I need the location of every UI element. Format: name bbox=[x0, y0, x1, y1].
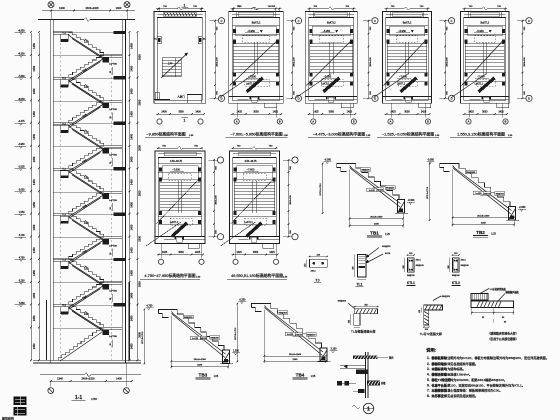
left dimension of TB3 bbox=[142, 309, 145, 365]
vertical dimension column 5 row1 bbox=[522, 20, 526, 99]
svg-text:Φ8@100: Φ8@100 bbox=[452, 274, 460, 277]
svg-text:1450: 1450 bbox=[130, 201, 134, 207]
svg-text:3350: 3350 bbox=[178, 111, 184, 114]
svg-text:Φ8@200: Φ8@200 bbox=[495, 193, 504, 196]
svg-text:1450: 1450 bbox=[32, 315, 36, 321]
svg-text:0.050: 0.050 bbox=[19, 190, 25, 192]
svg-text:1450: 1450 bbox=[32, 270, 36, 276]
svg-text:-2.950: -2.950 bbox=[18, 144, 25, 146]
svg-text:外均为200x300，配筋4Φ14籛筋Φ8@100。: 外均为200x300，配筋4Φ14籛筋Φ8@100。 bbox=[447, 377, 507, 382]
svg-text:-0.050: -0.050 bbox=[427, 159, 434, 162]
half landing level 3 bbox=[53, 146, 122, 166]
svg-text:B: B bbox=[427, 120, 429, 124]
svg-text:（楼梯踏步防滑条大样）: （楼梯踏步防滑条大样） bbox=[488, 332, 519, 336]
svg-text:C: C bbox=[528, 19, 530, 23]
stair flight down-left from half landing 4 bbox=[69, 191, 104, 218]
stair flight detail TB4: top landing bbox=[251, 304, 264, 312]
svg-text:2900: 2900 bbox=[137, 235, 141, 241]
svg-text:B≤KTL2: B≤KTL2 bbox=[480, 22, 489, 25]
svg-text:1450: 1450 bbox=[32, 292, 36, 298]
svg-text:L≤PTB6: L≤PTB6 bbox=[109, 154, 117, 157]
stair flight down-left from half landing 1 bbox=[69, 55, 104, 82]
svg-text:建筑结构: 建筑结构 bbox=[2, 416, 14, 420]
svg-text:261x9=2349: 261x9=2349 bbox=[289, 354, 302, 356]
svg-text:TB4: TB4 bbox=[296, 373, 305, 378]
detail callout bubble 1 bbox=[352, 403, 374, 413]
stair flight down-right from floor 5 bbox=[69, 214, 104, 241]
svg-text:1450: 1450 bbox=[32, 247, 36, 253]
svg-text:1425: 1425 bbox=[498, 111, 504, 114]
svg-text:1: 1 bbox=[184, 3, 186, 7]
svg-text:B≤KTL2: B≤KTL2 bbox=[403, 22, 412, 25]
svg-text:1450: 1450 bbox=[130, 43, 134, 49]
svg-text:D: D bbox=[528, 97, 530, 101]
top dimension of plan 3 bbox=[307, 6, 355, 11]
svg-text:1425: 1425 bbox=[162, 251, 168, 254]
svg-text:2900: 2900 bbox=[137, 331, 141, 337]
svg-text:1450: 1450 bbox=[130, 111, 134, 117]
svg-text:Φ8@100: Φ8@100 bbox=[416, 264, 425, 267]
svg-text:1425: 1425 bbox=[236, 251, 242, 254]
svg-text:1573.5+173.5: 1573.5+173.5 bbox=[320, 182, 322, 195]
svg-text:-2.950: -2.950 bbox=[519, 206, 526, 209]
svg-text:1450: 1450 bbox=[32, 65, 36, 71]
half landing level 6 bbox=[53, 282, 122, 302]
svg-text:1340: 1340 bbox=[59, 6, 65, 10]
svg-text:1573.5+173.5: 1573.5+173.5 bbox=[235, 327, 237, 340]
svg-text:TB3: TB3 bbox=[199, 373, 208, 378]
svg-text:1400: 1400 bbox=[161, 111, 167, 114]
svg-text:Φ8@200: Φ8@200 bbox=[210, 336, 219, 339]
stair flight down-left from half landing 2 bbox=[69, 100, 104, 127]
level marks of TB2 bbox=[427, 159, 526, 212]
top dimension of plan 7 bbox=[232, 146, 278, 150]
svg-text:1425: 1425 bbox=[195, 251, 201, 254]
svg-text:Φ8@200: Φ8@200 bbox=[338, 300, 347, 303]
svg-text:3050: 3050 bbox=[178, 251, 184, 254]
stair flight detail TB2: stepped flight bbox=[453, 164, 512, 215]
svg-text:-6.050: -6.050 bbox=[18, 99, 25, 101]
stair plan 1: -9.850 level bbox=[154, 12, 206, 104]
bottom dimension of plan 4 bbox=[385, 103, 431, 117]
svg-text:1:25: 1:25 bbox=[491, 233, 496, 236]
svg-text:1400: 1400 bbox=[116, 6, 122, 10]
axis bubble column 3 row1 bbox=[363, 18, 378, 102]
svg-text:-1.525: -1.525 bbox=[18, 167, 25, 169]
svg-text:1573.5+173.5: 1573.5+173.5 bbox=[427, 186, 429, 199]
caption of plan 2 bbox=[226, 132, 289, 138]
svg-text:L≤KTL1: L≤KTL1 bbox=[397, 83, 406, 86]
svg-text:Φ8@200: Φ8@200 bbox=[307, 334, 316, 337]
floor landing level 4 bbox=[53, 167, 125, 178]
svg-text:D: D bbox=[374, 97, 376, 101]
svg-text:凝土强度等级：梯板梯梁梯柱均为C30。: 凝土强度等级：梯板梯梁梯柱均为C30。 bbox=[447, 388, 502, 393]
svg-text:1:25: 1:25 bbox=[311, 375, 316, 378]
rebar annotations of TB3 bbox=[183, 315, 219, 340]
svg-text:−5.950: −5.950 bbox=[322, 30, 330, 33]
floor landing level 2 bbox=[53, 76, 125, 87]
svg-text:261x9=2349: 261x9=2349 bbox=[194, 359, 207, 361]
svg-text:2804+200: 2804+200 bbox=[370, 57, 372, 67]
stair flight down-left from half landing 5 bbox=[69, 237, 104, 264]
stair plan 3: &#8722;4.475,&#8722;3.000&#26631;&#39640;&#32467;&#26500;&#24179;&#38754;&#22270; bbox=[296, 12, 357, 108]
bottom axis bubbles of plan 3 bbox=[311, 119, 357, 124]
svg-text:TL与梯板连接大样: TL与梯板连接大样 bbox=[351, 328, 376, 333]
bottom axis bubbles of plan 4 bbox=[388, 119, 431, 124]
svg-text:1400: 1400 bbox=[195, 111, 201, 114]
svg-text:2804+200: 2804+200 bbox=[290, 195, 292, 205]
svg-text:Φ8@200: Φ8@200 bbox=[361, 169, 370, 172]
vertical dimension column 3 row1 bbox=[368, 20, 372, 99]
svg-text:-6.050: -6.050 bbox=[324, 159, 331, 162]
svg-text:2900: 2900 bbox=[137, 54, 141, 60]
caption of plan 5 bbox=[450, 132, 513, 138]
detail TL-stair connection bbox=[338, 300, 379, 334]
svg-text:1450: 1450 bbox=[32, 43, 36, 49]
svg-text:1450: 1450 bbox=[32, 133, 36, 139]
svg-text:300: 300 bbox=[403, 265, 405, 268]
svg-text:1450: 1450 bbox=[32, 179, 36, 185]
svg-text:1425: 1425 bbox=[237, 111, 243, 114]
svg-text:261x9=2349: 261x9=2349 bbox=[477, 215, 490, 217]
svg-text:5.: 5. bbox=[427, 378, 430, 382]
svg-text:300: 300 bbox=[448, 265, 450, 268]
svg-text:h=120: h=120 bbox=[369, 190, 376, 192]
label TB4 bbox=[293, 373, 316, 380]
svg-text:Φ8@200: Φ8@200 bbox=[184, 316, 193, 319]
svg-text:6.: 6. bbox=[427, 383, 430, 387]
svg-text:C: C bbox=[221, 19, 223, 23]
detail KTL1 bbox=[403, 253, 425, 286]
floor landing level 7 bbox=[53, 303, 125, 314]
svg-text:1425: 1425 bbox=[347, 111, 353, 114]
svg-text:1425: 1425 bbox=[390, 111, 396, 114]
svg-text:1.550: 1.550 bbox=[19, 212, 25, 214]
svg-text:Φ8@100: Φ8@100 bbox=[407, 274, 415, 277]
svg-text:1340: 1340 bbox=[57, 377, 63, 381]
svg-text:说明:: 说明: bbox=[426, 347, 436, 354]
top dimension of plan 5 bbox=[463, 6, 508, 11]
svg-text:200: 200 bbox=[425, 329, 428, 331]
svg-text:49.550,51.150标高结构平面图: 49.550,51.150标高结构平面图 bbox=[231, 273, 283, 278]
section cut mark 1 below plan 1 bbox=[182, 117, 189, 122]
svg-text:为结构标高。: 为结构标高。 bbox=[447, 366, 466, 371]
svg-text:标准值3.5kN/m²。: 标准值3.5kN/m²。 bbox=[447, 372, 472, 377]
svg-text:8.: 8. bbox=[427, 394, 430, 398]
stair plan 7: 49.550,51.150&#26631;&#39640;&#32467;&#26500;&#24179;&#38754;&#22270; bbox=[221, 151, 280, 248]
bottom dimensions of TB4 bbox=[264, 310, 327, 364]
svg-text:1-1: 1-1 bbox=[75, 395, 82, 401]
svg-text:本图楼梯混: 本图楼梯混 bbox=[432, 388, 448, 393]
svg-text:1.550: 1.550 bbox=[233, 350, 240, 353]
bottom axis bubbles of plan 1 bbox=[157, 119, 203, 124]
svg-text:1573.5+173.5: 1573.5+173.5 bbox=[142, 331, 144, 344]
half landing level 5 bbox=[53, 237, 122, 257]
stair flight down-right from floor 7 bbox=[69, 304, 104, 331]
svg-text:1: 1 bbox=[367, 407, 370, 413]
svg-text:200: 200 bbox=[409, 253, 412, 255]
svg-text:D: D bbox=[298, 97, 300, 101]
stair flight detail TB3: top landing bbox=[158, 310, 171, 318]
svg-text:2900: 2900 bbox=[137, 281, 141, 287]
svg-text:1425: 1425 bbox=[468, 111, 474, 114]
svg-text:1450: 1450 bbox=[32, 111, 36, 117]
bottom dimension of plan 3 bbox=[307, 103, 356, 117]
detail TJ bbox=[305, 254, 328, 282]
svg-text:B≤KTL2: B≤KTL2 bbox=[252, 22, 261, 25]
svg-text:120: 120 bbox=[419, 310, 421, 313]
detail anti-slip strip bbox=[471, 287, 519, 341]
half landing level 1 bbox=[53, 55, 122, 75]
rebar annotations of TB2 bbox=[466, 170, 505, 195]
svg-text:2349: 2349 bbox=[374, 223, 380, 225]
svg-text:1400: 1400 bbox=[116, 377, 122, 381]
svg-text:1425: 1425 bbox=[313, 111, 319, 114]
svg-text:h=120: h=120 bbox=[475, 193, 482, 195]
svg-text:L≤PTB6: L≤PTB6 bbox=[109, 244, 117, 247]
svg-text:1425: 1425 bbox=[273, 111, 279, 114]
axis bubbles right of plan 6 bbox=[209, 157, 224, 240]
svg-text:2349: 2349 bbox=[481, 222, 487, 224]
floor landing level 3 bbox=[53, 122, 125, 133]
svg-text:h=120: h=120 bbox=[287, 334, 294, 336]
stair flight detail TB3: stepped flight bbox=[171, 310, 225, 358]
svg-text:Φ8@200: Φ8@200 bbox=[386, 187, 395, 190]
left dimension of TB4 bbox=[235, 303, 238, 363]
svg-text:2.: 2. bbox=[427, 362, 430, 366]
bottom dimensions of TB1 bbox=[349, 170, 404, 228]
bottom axis bubbles of plan 6 bbox=[158, 259, 204, 264]
stair plan 4: &#8722;1.525,&#8722;0.050&#26631;&#39640;&#32467;&#26500;&#24179;&#38754;&#22270; bbox=[374, 12, 432, 108]
bottom dimension of plan 7 bbox=[232, 244, 279, 259]
detail TL1 bbox=[353, 245, 392, 287]
svg-text:2349: 2349 bbox=[292, 359, 298, 361]
bottom dimension of plan 5 bbox=[463, 103, 508, 117]
svg-text:3050: 3050 bbox=[329, 111, 335, 114]
left dimension of TB1 bbox=[320, 163, 323, 214]
svg-text:2804+200: 2804+200 bbox=[215, 195, 217, 205]
svg-text:D: D bbox=[221, 97, 223, 101]
svg-text:Φ8@200: Φ8@200 bbox=[467, 171, 476, 174]
top dimension of plan 1 bbox=[156, 8, 204, 10]
svg-text:1450: 1450 bbox=[32, 88, 36, 94]
notes block bbox=[426, 347, 549, 398]
svg-text:1.: 1. bbox=[427, 356, 430, 360]
axis bubbles right of plan 7 bbox=[283, 157, 298, 240]
wall section detail 1 bbox=[337, 352, 393, 398]
top dimension of plan 6 bbox=[157, 6, 203, 11]
top dimension of plan 6 bbox=[157, 146, 203, 150]
svg-text:B: B bbox=[505, 120, 507, 124]
stair flight down-left from half landing 6 bbox=[69, 282, 104, 309]
vertical dimension column 1 row1 bbox=[214, 20, 218, 99]
section 1-1 stair elevation bbox=[38, 18, 135, 363]
top dimension of plan 2 bbox=[231, 6, 282, 11]
svg-text:1450: 1450 bbox=[130, 292, 134, 298]
bottom dimension of plan 1 bbox=[156, 111, 205, 115]
vertical dimension right of plan 6 bbox=[213, 159, 217, 237]
level marks of TB4 bbox=[238, 299, 337, 353]
svg-text:1450: 1450 bbox=[32, 201, 36, 207]
svg-text:2804+200: 2804+200 bbox=[293, 57, 295, 67]
axis bubble column 4 row1 bbox=[440, 18, 455, 102]
svg-text:C: C bbox=[374, 19, 376, 23]
stair plan 5: 1.550,3.150&#26631;&#39640;&#32467;&#26500;&#24179;&#38754;&#22270; bbox=[452, 12, 510, 108]
label TB1 bbox=[367, 231, 390, 238]
level marks of TB3 bbox=[145, 305, 240, 355]
svg-text:楼梯间墙体: 楼梯间墙体 bbox=[432, 361, 448, 366]
axis bubble top-left bbox=[48, 2, 54, 8]
detail TL-TZ connection bbox=[419, 295, 451, 336]
svg-text:-8.300: -8.300 bbox=[408, 199, 415, 202]
svg-text:2900: 2900 bbox=[137, 99, 141, 105]
stair flight down-right from floor 1 bbox=[69, 32, 104, 59]
top dimension line of section bbox=[42, 6, 135, 19]
corner annotation bottom-left bbox=[2, 397, 27, 420]
vertical dimension column 2 row1 bbox=[291, 20, 295, 99]
svg-text:L≤KTL1: L≤KTL1 bbox=[475, 83, 484, 86]
svg-text:−1.525,−0.050标高结构平面图: −1.525,−0.050标高结构平面图 bbox=[382, 132, 434, 137]
svg-text:-4.475: -4.475 bbox=[18, 121, 25, 123]
stair flight detail TB2: bottom beam bbox=[506, 207, 519, 221]
stair flight down-left from half landing 3 bbox=[69, 146, 104, 173]
left dimension chain of section bbox=[30, 31, 40, 361]
svg-text:KTL1: KTL1 bbox=[407, 281, 415, 285]
svg-text:1:25: 1:25 bbox=[385, 233, 390, 236]
svg-text:7.: 7. bbox=[427, 389, 430, 393]
svg-text:L≤PTB6: L≤PTB6 bbox=[109, 63, 117, 66]
bottom stair flight to base slab bbox=[58, 327, 104, 361]
level marks of TB1 bbox=[324, 159, 415, 205]
bottom dimension of plan 6 bbox=[157, 244, 204, 259]
half landing level 2 bbox=[53, 100, 122, 120]
svg-text:3.100: 3.100 bbox=[19, 235, 25, 237]
svg-text:TJ: TJ bbox=[316, 279, 320, 283]
svg-text:楼梯活荷载: 楼梯活荷载 bbox=[432, 372, 448, 377]
caption of plan 6 bbox=[140, 273, 201, 279]
svg-text:6.250: 6.250 bbox=[239, 299, 246, 302]
bottom axis bubbles of plan 2 bbox=[234, 119, 282, 124]
svg-text:−5.950: −5.950 bbox=[398, 30, 406, 33]
svg-text:详见各层结构平面图。: 详见各层结构平面图。 bbox=[447, 361, 478, 366]
svg-text:1425: 1425 bbox=[421, 111, 427, 114]
axis bubble column 1 row1 bbox=[210, 18, 225, 102]
label TB3 bbox=[195, 373, 218, 380]
svg-text:1450: 1450 bbox=[130, 133, 134, 139]
svg-text:人防门: 人防门 bbox=[177, 95, 185, 99]
svg-text:B: B bbox=[279, 120, 281, 124]
svg-text:Φ8@200: Φ8@200 bbox=[442, 295, 451, 298]
svg-text:本图标高均: 本图标高均 bbox=[432, 366, 447, 371]
svg-text:未尽事宜详: 未尽事宜详 bbox=[431, 393, 448, 398]
bottom dimension of plan 2 bbox=[231, 103, 283, 117]
svg-text:4.750: 4.750 bbox=[146, 305, 153, 308]
svg-text:2900: 2900 bbox=[137, 190, 141, 196]
svg-text:L≤PTB6: L≤PTB6 bbox=[109, 290, 117, 293]
bottom dimensions of TB3 bbox=[171, 316, 229, 369]
bottom dimension line of section bbox=[50, 363, 133, 387]
svg-text:1450: 1450 bbox=[130, 224, 134, 230]
stair flight down-right from floor 2 bbox=[69, 77, 104, 104]
level marks of section bbox=[15, 30, 27, 307]
svg-text:注明外均为h=120，梯板分布筋除注明外均为Φ8@200，定: 注明外均为h=120，梯板分布筋除注明外均为Φ8@200，定位详见建筑图。 bbox=[447, 355, 549, 360]
svg-text:A: A bbox=[390, 120, 392, 124]
stair flight detail TB4: stepped flight bbox=[264, 304, 323, 356]
svg-text:2804+200: 2804+200 bbox=[447, 57, 449, 67]
svg-text:L≤PTB6: L≤PTB6 bbox=[109, 199, 117, 202]
axis bubble column 5 row1 bbox=[517, 18, 532, 102]
svg-text:h=120: h=120 bbox=[192, 338, 199, 340]
svg-text:3050: 3050 bbox=[482, 111, 488, 114]
section cut mark 1 above plan 1 bbox=[182, 3, 189, 7]
stair plan 6: 4.750~47.950&#26631;&#39640;&#32467;&#26500;&#24179;&#38754;&#22270; bbox=[146, 151, 205, 248]
svg-text:1450: 1450 bbox=[32, 156, 36, 162]
vertical dimension column 4 row1 bbox=[444, 20, 448, 99]
svg-text:C: C bbox=[298, 19, 300, 23]
stair flight detail TB3: bottom beam bbox=[220, 350, 233, 364]
svg-text:休息平台板: 休息平台板 bbox=[431, 382, 448, 387]
svg-text:−7.600,−5.950标高结构平面图: −7.600,−5.950标高结构平面图 bbox=[230, 132, 282, 137]
svg-text:3.150: 3.150 bbox=[331, 348, 338, 351]
svg-text:3050: 3050 bbox=[253, 111, 259, 114]
floor landing level 5 bbox=[53, 212, 125, 223]
vertical dimension right of plan 7 bbox=[288, 159, 292, 237]
top dimension of plan 7 bbox=[232, 6, 278, 11]
svg-text:1.550,3.150标高结构平面图: 1.550,3.150标高结构平面图 bbox=[457, 132, 505, 137]
svg-text:A: A bbox=[312, 120, 314, 124]
svg-text:−5.950: −5.950 bbox=[247, 30, 255, 33]
base slab bbox=[33, 360, 141, 377]
svg-text:6.250: 6.250 bbox=[19, 280, 25, 282]
half landing level 7 bbox=[53, 327, 122, 347]
svg-text:-7.600: -7.600 bbox=[18, 76, 25, 78]
svg-text:楼梯板厚除: 楼梯板厚除 bbox=[432, 355, 448, 360]
svg-text:1425: 1425 bbox=[269, 251, 275, 254]
svg-text:L≤PTB6: L≤PTB6 bbox=[109, 335, 117, 338]
stair flight down-right from floor 3 bbox=[69, 123, 104, 150]
svg-text:1:25: 1:25 bbox=[214, 375, 219, 378]
caption of plan 3 bbox=[308, 132, 371, 138]
svg-text:A: A bbox=[468, 120, 470, 124]
caption of plan 7 bbox=[227, 273, 288, 279]
svg-text:B: B bbox=[353, 120, 355, 124]
stair flight down-right from floor 6 bbox=[69, 259, 104, 286]
svg-text:TB2: TB2 bbox=[476, 230, 485, 235]
stair flight detail TB1: stepped flight bbox=[350, 164, 401, 208]
svg-text:TB1: TB1 bbox=[370, 231, 379, 236]
stair flight detail TB2: top landing bbox=[440, 164, 453, 172]
svg-text:Φ8@100: Φ8@100 bbox=[461, 264, 470, 267]
svg-text:1450: 1450 bbox=[130, 65, 134, 71]
axis bubble column 2 row1 bbox=[287, 18, 302, 102]
svg-text:1450: 1450 bbox=[130, 270, 134, 276]
svg-text:2804+200: 2804+200 bbox=[524, 57, 526, 67]
svg-text:KTL2: KTL2 bbox=[452, 281, 460, 285]
svg-text:厚100，双层双向Φ8@150，平台梁除注明外均为KTL1。: 厚100，双层双向Φ8@150，平台梁除注明外均为KTL1。 bbox=[447, 382, 525, 387]
svg-text:-8.300: -8.300 bbox=[18, 53, 25, 55]
svg-text:−9.850标高结构平面图: −9.850标高结构平面图 bbox=[146, 132, 185, 137]
svg-text:4.750: 4.750 bbox=[19, 257, 25, 259]
top dimension of plan 4 bbox=[385, 6, 430, 11]
rebar annotations of TB4 bbox=[278, 311, 317, 337]
left dimension of TB2 bbox=[427, 163, 430, 221]
svg-text:Φ8@200: Φ8@200 bbox=[278, 311, 287, 314]
svg-text:1450: 1450 bbox=[32, 224, 36, 230]
svg-text:4.750~47.950标高结构平面图: 4.750~47.950标高结构平面图 bbox=[144, 273, 195, 278]
stair flight detail TB4: bottom beam bbox=[318, 348, 331, 362]
svg-text:（仅用于公共部位楼梯）: （仅用于公共部位楼梯） bbox=[488, 337, 519, 341]
right dimension chains of section bbox=[129, 31, 142, 361]
